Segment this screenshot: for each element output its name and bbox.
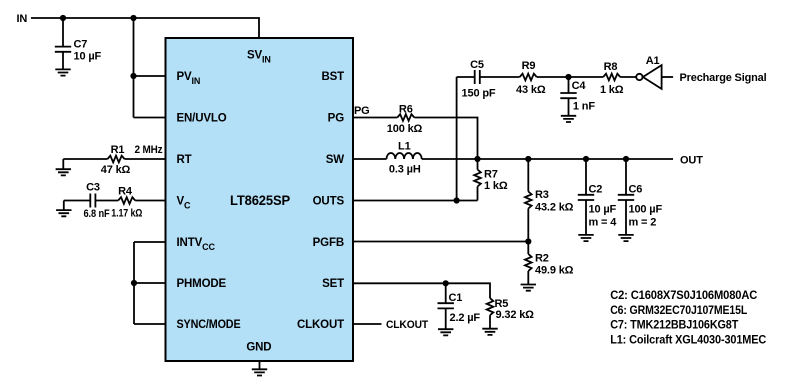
svg-text:SET: SET — [322, 278, 344, 290]
inductor L1 — [387, 153, 422, 159]
wire C4 stem top — [568, 77, 570, 93]
svg-text:OUT: OUT — [680, 155, 703, 167]
svg-text:Precharge Signal: Precharge Signal — [680, 72, 767, 84]
ground at RT — [56, 169, 71, 175]
wire C4 stem bottom — [568, 98, 570, 116]
svg-text:C3: C3 — [86, 182, 100, 194]
svg-text:R1: R1 — [111, 144, 125, 156]
wire R7 stubs — [477, 159, 479, 201]
svg-text:PG: PG — [328, 113, 345, 125]
ground under C2 — [578, 235, 593, 241]
junction C4 — [565, 74, 571, 80]
svg-text:C5: C5 — [470, 59, 484, 71]
ground under IC — [252, 369, 267, 375]
ground at VC — [56, 210, 71, 216]
svg-text:1 kΩ: 1 kΩ — [484, 180, 508, 192]
svg-text:C6: C6 — [629, 184, 643, 196]
svg-text:10 µF: 10 µF — [589, 203, 617, 215]
wire IN top rail — [31, 18, 259, 38]
svg-text:CLKOUT: CLKOUT — [386, 319, 428, 331]
capacitor C3 — [90, 194, 95, 208]
ground under R2 — [521, 285, 536, 291]
wire VC line — [64, 200, 166, 202]
wire C7 stem bottom — [62, 52, 64, 70]
svg-text:m = 2: m = 2 — [629, 216, 657, 228]
resistor R6 — [397, 114, 414, 121]
ground under C6 — [618, 235, 633, 241]
wire CLKOUT stub — [353, 323, 382, 325]
wire INTVCC line — [134, 241, 166, 243]
wire RT ground stem — [62, 159, 64, 169]
svg-text:C7: C7 — [74, 39, 88, 51]
svg-text:2 MHz: 2 MHz — [135, 144, 164, 156]
svg-text:LT8625SP: LT8625SP — [230, 192, 290, 208]
wire PVIN branch vertical — [133, 18, 135, 118]
junction at PVIN branch — [130, 15, 136, 21]
wire PG line — [353, 118, 478, 160]
resistor R8 — [603, 74, 620, 81]
wire VC ground stem — [63, 201, 65, 211]
svg-text:10 µF: 10 µF — [74, 51, 102, 63]
wire SW line — [353, 158, 673, 160]
wire C5 branch vertical — [456, 77, 458, 201]
svg-text:49.9 kΩ: 49.9 kΩ — [535, 265, 574, 277]
wire C1 stem top — [445, 283, 447, 303]
resistor R4 — [118, 197, 135, 204]
svg-text:R7: R7 — [484, 169, 498, 181]
inverter A1 bubble — [636, 74, 642, 80]
wire C6 stem top — [625, 159, 627, 195]
wire R5 stub bottom — [489, 315, 491, 329]
svg-text:100 µF: 100 µF — [629, 203, 663, 215]
capacitor C7 — [55, 47, 71, 52]
junction SW-R7 — [474, 156, 480, 162]
svg-text:SYNC/MODE: SYNC/MODE — [177, 319, 241, 331]
svg-text:1 kΩ: 1 kΩ — [600, 84, 624, 96]
wire C1 stem bottom — [445, 308, 447, 329]
svg-text:OUTS: OUTS — [313, 196, 345, 208]
svg-text:R8: R8 — [604, 61, 618, 73]
svg-text:L1: L1 — [398, 141, 411, 153]
resistor R7 — [474, 170, 481, 187]
wire to PVIN pin — [134, 75, 166, 77]
wire PHMODE line — [134, 282, 166, 284]
junction SW-C2 — [583, 156, 589, 162]
junction OUTS-C5 branch — [454, 197, 460, 203]
wire to EN/UVLO pin — [134, 117, 166, 119]
svg-text:A1: A1 — [646, 55, 660, 67]
resistor R5 — [487, 298, 494, 315]
junction at C7 — [60, 15, 66, 21]
svg-text:CLKOUT: CLKOUT — [297, 319, 344, 331]
wire C7 stem top — [62, 18, 64, 47]
svg-text:43 kΩ: 43 kΩ — [516, 84, 546, 96]
svg-text:43.2 kΩ: 43.2 kΩ — [535, 202, 574, 214]
wire PGFB line — [353, 241, 528, 243]
svg-text:BST: BST — [321, 71, 344, 83]
svg-text:150 pF: 150 pF — [462, 88, 496, 100]
op-amp U1 body LT8625SP — [166, 38, 354, 361]
wire OUTS line — [353, 200, 478, 202]
svg-text:C1: C1 — [449, 292, 463, 304]
svg-text:C2: C1608X7S0J106M080AC: C2: C1608X7S0J106M080AC — [610, 288, 757, 302]
wire mode tie vertical — [133, 242, 135, 324]
svg-text:R9: R9 — [522, 60, 536, 72]
resistor R9 — [520, 74, 537, 81]
wire SYNC/MODE line — [134, 323, 166, 325]
svg-text:0.3 µH: 0.3 µH — [389, 164, 421, 176]
ground under C1 — [438, 329, 453, 335]
svg-text:6.8 nF: 6.8 nF — [84, 208, 110, 220]
svg-text:47 kΩ: 47 kΩ — [101, 164, 131, 176]
svg-text:R6: R6 — [399, 104, 413, 116]
capacitor C4 — [560, 93, 576, 98]
junction PGFB-R3 — [525, 238, 531, 244]
capacitor C6 — [618, 195, 634, 200]
svg-text:R4: R4 — [118, 186, 133, 198]
ground under C4 — [561, 116, 576, 122]
inverter A1 triangle — [643, 65, 662, 89]
svg-text:PGFB: PGFB — [313, 237, 344, 249]
svg-text:2.2 µF: 2.2 µF — [450, 312, 481, 324]
wire SET line — [353, 283, 490, 298]
junction SW-R3 — [525, 156, 531, 162]
resistor R2 — [525, 254, 532, 271]
wire A1 input stub — [662, 76, 674, 78]
svg-text:L1: Coilcraft XGL4030-301MEC: L1: Coilcraft XGL4030-301MEC — [610, 332, 766, 346]
svg-text:SW: SW — [326, 154, 345, 166]
wire C2 stem bottom — [585, 200, 587, 235]
wire C6 stem bottom — [625, 200, 627, 235]
capacitor C1 — [438, 303, 454, 308]
svg-text:9.32 kΩ: 9.32 kΩ — [496, 309, 535, 321]
svg-text:C2: C2 — [589, 184, 603, 196]
wire R3 stubs — [527, 159, 529, 242]
svg-text:C4: C4 — [572, 80, 587, 92]
svg-text:R3: R3 — [535, 189, 549, 201]
svg-text:IN: IN — [17, 13, 28, 25]
wire R2 stubs — [527, 242, 529, 285]
svg-text:GND: GND — [246, 342, 271, 354]
svg-text:PG: PG — [354, 105, 370, 117]
junction PVIN — [130, 73, 136, 79]
ground under C7 — [55, 69, 70, 75]
junction PHMODE — [131, 280, 137, 286]
svg-text:1 nF: 1 nF — [573, 101, 595, 113]
resistor R1 — [108, 156, 125, 163]
junction SET-C1 — [443, 280, 449, 286]
capacitor C2 — [578, 195, 594, 200]
svg-text:RT: RT — [177, 154, 192, 166]
svg-text:R2: R2 — [535, 253, 549, 265]
wire RT line — [63, 158, 165, 160]
svg-text:EN/UVLO: EN/UVLO — [177, 113, 227, 125]
wire GND stem — [259, 361, 261, 369]
svg-text:PHMODE: PHMODE — [177, 278, 227, 290]
svg-text:C6: GRM32EC70J107ME15L: C6: GRM32EC70J107ME15L — [610, 303, 747, 317]
wire C2 stem top — [585, 159, 587, 195]
junction SW-C6 — [623, 156, 629, 162]
ground under R5 — [482, 329, 497, 335]
resistor R3 — [525, 192, 532, 209]
capacitor C5 — [475, 70, 480, 84]
wire top precharge line — [457, 76, 637, 78]
svg-text:m = 4: m = 4 — [589, 216, 618, 228]
svg-text:C7: TMK212BBJ106KG8T: C7: TMK212BBJ106KG8T — [610, 318, 739, 332]
svg-text:1.17 kΩ: 1.17 kΩ — [111, 208, 142, 220]
svg-text:100 kΩ: 100 kΩ — [387, 123, 423, 135]
